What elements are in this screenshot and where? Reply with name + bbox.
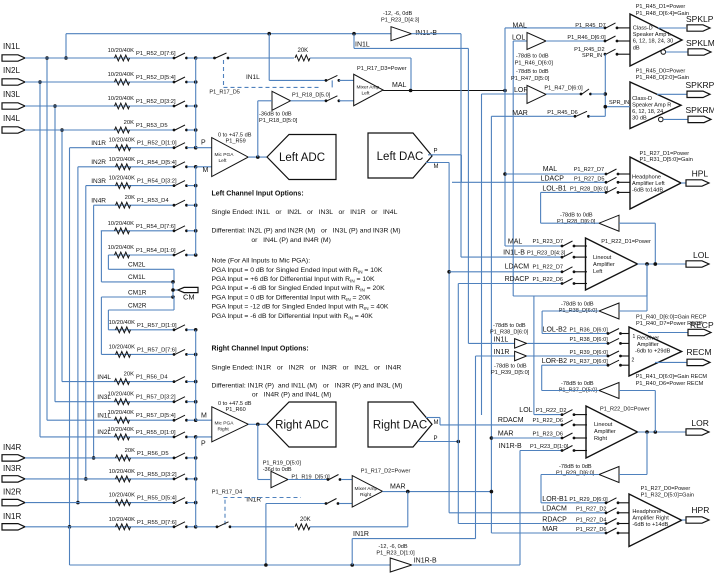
wire IN2R vertical bus [76,167,80,505]
svg-text:LOL: LOL [519,407,532,414]
svg-text:P1_R54_D[7:6]: P1_R54_D[7:6] [136,224,176,230]
svg-text:CM1L: CM1L [128,274,146,281]
svg-text:P1_R23_D6: P1_R23_D6 [533,432,563,438]
svg-text:Note (For All Inputs to Mic PG: Note (For All Inputs to Mic PGA): [212,258,311,265]
svg-text:HPL: HPL [692,169,709,179]
pin HPL [686,169,709,187]
svg-text:MAL: MAL [543,166,558,173]
wire IN1L-B net [460,34,462,257]
wire MAL to HPL [505,166,606,174]
wire CM2R [108,297,174,330]
amplifier Headphone Amp Left [630,151,693,209]
op-amp P1_R19 -36dB [263,461,330,488]
wire RECM out [655,361,687,363]
op-amp P1_R39 input buffer IN1R [491,349,530,376]
svg-text:IN3R: IN3R [91,178,106,185]
input pin IN2L [2,66,25,85]
wire R46 to switch [546,35,606,41]
svg-text:P: P [201,441,206,448]
amplifier Lineout Amp Right [586,406,650,458]
svg-text:LDACM: LDACM [542,505,567,512]
wire P1_R19 out [288,479,328,481]
svg-text:10/20/40K: 10/20/40K [108,48,135,54]
svg-text:Differential: IN1R (P) and IN: Differential: IN1R (P) and IN1L (M) or I… [212,383,403,390]
svg-text:10/20/40K: 10/20/40K [108,245,135,251]
svg-text:P1_R48_D[2:0]=Gain: P1_R48_D[2:0]=Gain [636,75,689,81]
svg-text:CM1R: CM1R [128,290,147,297]
svg-text:CM: CM [183,293,195,302]
op-amp P1_R37 -78dB feedback [559,381,619,399]
svg-text:Mixer Amp: Mixer Amp [355,486,378,492]
svg-text:10/20/40K: 10/20/40K [109,493,136,499]
svg-text:P1_R31_D[5:0]=Gain: P1_R31_D[5:0]=Gain [640,157,693,163]
svg-text:P1_R54_D[3:2]: P1_R54_D[3:2] [137,179,177,185]
svg-text:-6db to +29dB: -6db to +29dB [635,349,671,355]
text left channel options [212,191,401,244]
svg-text:1: 1 [633,334,636,340]
wire left M stub [196,167,212,174]
svg-text:P1_R17_D2=Power: P1_R17_D2=Power [361,469,411,475]
wire PGA-R out to P1_R19 [258,424,271,479]
svg-text:-78dB to 0dB: -78dB to 0dB [516,69,549,75]
wire LOR to R47 [482,87,529,94]
svg-text:CM2L: CM2L [128,262,146,269]
wire CM link [171,282,178,297]
svg-text:P1_R27_D0=Power: P1_R27_D0=Power [641,486,691,492]
amplifier Class-D Speaker Amp L [630,4,689,66]
wire HPR out [682,519,686,521]
block Left ADC [267,135,336,180]
svg-text:SPR_IN: SPR_IN [582,53,602,59]
wire LDACM net [447,163,451,513]
svg-text:IN1R-B: IN1R-B [414,558,437,565]
svg-text:P1_R22_D7: P1_R22_D7 [533,265,563,271]
wire RECP out [648,332,688,334]
svg-text:IN4R: IN4R [91,197,106,204]
svg-text:P1_R18_D[5:0]: P1_R18_D[5:0] [259,118,298,124]
wire SPKLP out [658,27,686,29]
wire IN1R-B out [412,451,520,566]
svg-text:P1_R22_D1=Power: P1_R22_D1=Power [601,239,651,245]
svg-text:MAL: MAL [392,82,407,89]
svg-text:Right: Right [360,492,372,498]
wire RDACP to HPR [458,517,606,524]
svg-text:P1_R22_D6: P1_R22_D6 [533,277,563,283]
resistor P1_R55_D[7:6] 10/20/40K row [25,517,198,530]
svg-text:-78dB to 0dB: -78dB to 0dB [559,464,592,470]
svg-text:IN1L: IN1L [355,42,370,49]
resistor P1_R52_D[3:2] 10/20/40K row [25,96,198,109]
wire SPR_IN stub [604,100,631,109]
svg-text:IN1R: IN1R [3,512,21,521]
svg-text:IN1R-B: IN1R-B [499,443,522,450]
wire IN1R up branch [352,531,475,565]
wire IN1L buffered row [528,337,609,343]
wire CM2L [108,255,174,282]
wire R29 out [541,475,599,503]
svg-text:-78dB to 0dB: -78dB to 0dB [494,364,527,370]
wire LDACP to HPL [452,176,606,183]
svg-text:P1_R17_D4: P1_R17_D4 [212,490,242,496]
switch mixer-R input 2 [325,499,353,505]
svg-text:P1_R47_D[5:0]: P1_R47_D[5:0] [511,76,550,82]
svg-text:P1_R57_D[5:4]: P1_R57_D[5:4] [136,413,176,419]
svg-text:IN1L-B: IN1L-B [503,249,525,256]
wire left P stub [196,140,212,148]
svg-text:RDACM: RDACM [498,417,524,424]
pin RECP [688,320,714,336]
svg-text:P1_R23_D7: P1_R23_D7 [533,239,563,245]
svg-text:P1_R27_D7: P1_R27_D7 [574,167,604,173]
op-amp P1_R38 -78dB feedback [559,302,619,320]
input pin IN3R [2,464,25,482]
wire top rail IN1L [66,32,391,36]
wire R47 to switch [544,85,583,94]
wire Right DAC M out [426,418,440,427]
resistor P1_R55_D[1:0] 10/20/40K row [40,427,198,440]
block Right DAC [368,402,432,447]
svg-text:-12, -6, 0dB: -12, -6, 0dB [378,544,407,550]
svg-text:LOL: LOL [512,34,525,41]
svg-text:RECM: RECM [687,347,712,357]
pin RECM [687,347,712,366]
svg-text:P1_R40_D6=Power RECM: P1_R40_D6=Power RECM [636,381,704,387]
wire LOR-B2 row [542,358,608,365]
resistor P1_R55_D[3:2] 10/20/40K row [25,469,198,482]
svg-text:MAL: MAL [508,239,523,246]
switch P1_R45_D2 [574,47,630,59]
switch P1_R23_D7 [561,241,587,247]
svg-text:Class-D: Class-D [632,96,652,102]
pin SPKRM [686,105,714,123]
wire MAL output [383,89,507,93]
wire LOL to R38 [619,264,647,311]
svg-text:10/20/40K: 10/20/40K [109,176,136,182]
op-amp P1_R29 -78dB feedback [556,464,619,483]
svg-text:MAR: MAR [390,484,406,491]
op-amp Mixer Amp Right [352,469,410,508]
op-amp Mixer Amp Left [354,66,407,106]
resistor P1_R52_D[1:0] 10/20/40K row [70,138,198,151]
switch mixer-R input 1 [327,475,353,481]
wire SPKLM out [661,50,688,55]
svg-text:P1_R39_D[6:0]: P1_R39_D[6:0] [570,350,609,356]
wire LOR to R37 [619,391,655,433]
svg-text:10/20/40K: 10/20/40K [108,221,135,227]
wire MAR net [490,116,494,533]
svg-text:LOR: LOR [514,87,528,94]
wire HPL feedback in [619,222,655,224]
svg-text:Left ADC: Left ADC [279,152,325,164]
text PGA note [212,258,389,321]
svg-text:P1_R45_D1=Power: P1_R45_D1=Power [636,4,686,10]
svg-text:LOL-B1: LOL-B1 [542,185,566,192]
svg-text:10/20/40K: 10/20/40K [109,138,136,144]
input pin IN3L [2,90,25,109]
input pin IN1R [2,512,25,530]
svg-text:IN3L: IN3L [3,90,20,99]
switch P1_R47 [580,89,606,95]
svg-text:LOL-B2: LOL-B2 [543,326,567,333]
svg-text:P1_R38_D[6:0]: P1_R38_D[6:0] [570,337,609,343]
svg-text:P1_R46_D[6:0]: P1_R46_D[6:0] [515,61,554,67]
svg-text:Lineout: Lineout [593,255,612,261]
switch P1_R27_D4 [605,519,629,525]
wire IN1R net [476,356,515,539]
op-amp Mic PGA Right [212,401,252,442]
svg-text:CM2R: CM2R [128,303,147,310]
wire RDACM to LineR [440,417,563,425]
svg-text:P1_R45_D0=Power: P1_R45_D0=Power [636,68,686,74]
wire MAR to LineR [491,431,563,438]
svg-text:10/20/40K: 10/20/40K [109,320,136,326]
svg-text:LDACM: LDACM [505,264,530,271]
svg-text:-36dB to 0dB: -36dB to 0dB [259,112,292,118]
svg-text:P1_R54_D[5:4]: P1_R54_D[5:4] [137,160,177,166]
svg-text:M: M [201,412,207,419]
svg-text:20K: 20K [124,372,134,378]
switch P1_R22_D7 [561,267,587,273]
resistor P1_R57_D[7:6] 10/20/40K row [101,344,197,357]
svg-text:10/20/40K: 10/20/40K [109,469,136,475]
svg-text:P1_R22_D0=Power: P1_R22_D0=Power [600,407,650,413]
svg-text:Speaker Amp R: Speaker Amp R [632,102,671,108]
svg-text:or IN4R (P) and IN4L (M): or IN4R (P) and IN4L (M) [252,392,331,399]
pin SPKRP [686,80,714,97]
amplifier Receiver Amp [629,314,707,387]
svg-text:P1_R38_D[6:0]: P1_R38_D[6:0] [490,330,529,336]
wire P1_R17_D5 dashed [209,60,332,96]
wire SPR_IN vertical [604,54,608,116]
wire IN3L vertical bus [53,104,57,402]
svg-text:10/20/40K: 10/20/40K [108,96,135,102]
svg-text:P1_R27_D1=Power: P1_R27_D1=Power [640,151,690,157]
switch P1_R37 in [607,360,629,366]
svg-text:-78dB to 0dB: -78dB to 0dB [516,54,549,60]
svg-text:10/20/40K: 10/20/40K [109,344,136,350]
wire IN1L-B to LineL [461,249,566,257]
op-amp P1_R28 -78dB feedback [557,213,619,232]
svg-text:10/20/40K: 10/20/40K [108,72,135,78]
svg-text:10/20/40K: 10/20/40K [109,157,136,163]
wire MAL to ClassD-L [505,22,606,29]
text right channel options [212,346,403,399]
wire SPKRM out [659,117,689,122]
svg-text:Differential: IN2L (P) and IN2: Differential: IN2L (P) and IN2R (M) or I… [212,228,401,235]
svg-text:2: 2 [632,358,635,364]
svg-text:PGA Input = 0 dB for Singled E: PGA Input = 0 dB for Singled Ended Input… [212,267,383,275]
svg-text:6, 12, 18, 24,: 6, 12, 18, 24, [632,109,665,115]
svg-text:30 dB: 30 dB [632,115,647,121]
svg-text:MAR: MAR [512,110,528,117]
svg-text:P: P [434,436,438,442]
svg-text:Mixer Amp: Mixer Amp [357,85,380,91]
svg-text:MAR: MAR [498,431,514,438]
svg-text:P1_R22_D2: P1_R22_D2 [536,408,566,414]
svg-text:PGA Input = -6 dB for Singled: PGA Input = -6 dB for Singled Ended Inpu… [212,285,386,293]
resistor P1_R57_D[5:4] 10/20/40K row [47,410,198,423]
svg-text:P1_R57_D[3:2]: P1_R57_D[3:2] [136,395,176,401]
switch mixer-L input 1 [325,75,354,81]
svg-text:Right ADC: Right ADC [275,419,329,431]
svg-text:P1_R32_D[5:0]=Gain: P1_R32_D[5:0]=Gain [641,492,694,498]
input pin IN4R [2,443,25,461]
svg-text:P1_R27_D5: P1_R27_D5 [574,177,604,183]
svg-text:IN1R: IN1R [353,531,369,538]
switch P1_R46 [604,36,630,42]
wire right M bus [195,330,197,420]
wire SPKRP out [657,93,687,95]
svg-text:P1_R27_D2: P1_R27_D2 [576,506,606,512]
wire RDACP to LineL [458,276,563,284]
wire 20K feedback row [196,48,411,91]
svg-text:Amplifier: Amplifier [637,342,659,348]
svg-text:M: M [434,164,439,170]
svg-text:P1_R60: P1_R60 [226,407,246,413]
svg-text:Right: Right [218,427,230,433]
wire HPL feedback out [541,192,599,223]
switch P1_R27_D5 [605,177,630,183]
pin LOL [686,250,709,267]
svg-text:20K: 20K [298,48,309,54]
wire IN1R-B to LineR [499,443,569,451]
wire IN1L net [468,48,514,343]
wire LOL to LineR [519,407,566,415]
svg-text:20K: 20K [125,195,135,201]
block Right ADC [267,402,336,447]
resistor P1_R54_D[1:0] 10/20/40K row [108,245,198,258]
resistor P1_R54_D[5:4] 10/20/40K row [78,157,198,170]
svg-text:-36d to 0dB: -36d to 0dB [263,467,292,473]
svg-text:P1_R56_D5: P1_R56_D5 [137,451,169,457]
wire right P stub [196,437,212,448]
wire IN1R vertical bus [68,148,72,529]
svg-text:P1_R55_D[5:4]: P1_R55_D[5:4] [137,496,177,502]
svg-text:-78dB to 0dB: -78dB to 0dB [561,381,594,387]
svg-text:-12, -6, 0dB: -12, -6, 0dB [383,11,412,17]
svg-text:Left: Left [593,269,603,275]
svg-text:P1_R19_D[5:0]: P1_R19_D[5:0] [263,461,302,467]
switch mixer-L input 2 [325,96,354,102]
resistor P1_R57_D[1:0] 10/20/40K row [108,320,197,333]
svg-text:IN2L: IN2L [97,429,111,436]
input pin IN2R [2,488,25,506]
svg-text:P1_R52_D[1:0]: P1_R52_D[1:0] [137,141,177,147]
switch P1_R27_D6 [605,528,629,534]
svg-text:P1_R23_D[1:0]: P1_R23_D[1:0] [530,444,569,450]
switch P1_R23_D10 [561,446,587,452]
svg-text:P1_R46_D[6:0]: P1_R46_D[6:0] [567,35,606,41]
svg-text:P1_R48_D[6:4]=Gain: P1_R48_D[6:4]=Gain [636,11,689,17]
svg-text:P1_R54_D[1:0]: P1_R54_D[1:0] [136,248,176,254]
svg-text:IN3L: IN3L [97,394,111,401]
wire IN1R bottom rail [70,527,391,567]
wire right M stub [196,412,212,420]
wire MAR output [382,490,491,494]
resistor P1_R54_D[7:6] 10/20/40K row [101,221,198,234]
svg-text:Left: Left [362,91,371,97]
svg-text:P1_R57_D[7:6]: P1_R57_D[7:6] [137,347,177,353]
svg-text:Mic PGA: Mic PGA [215,421,235,427]
wire Right DAC P out [418,436,460,443]
wire right P bus [195,437,197,527]
svg-text:LOR-B2: LOR-B2 [542,358,567,365]
resistor P1_R57_D[3:2] 10/20/40K row [55,392,198,405]
svg-text:P1_R29_D[6:0]: P1_R29_D[6:0] [569,497,608,503]
svg-text:IN1L: IN1L [3,42,20,51]
svg-text:IN2L: IN2L [3,66,20,75]
wire LOL out [638,262,687,266]
svg-text:IN1L: IN1L [494,337,509,344]
svg-text:SPKRM: SPKRM [686,105,714,115]
svg-text:P1_R41_D[6:0]=Gain RECM: P1_R41_D[6:0]=Gain RECM [636,374,708,380]
svg-text:P1_R56_D4: P1_R56_D4 [136,375,168,381]
wire MAL to LineL [505,239,563,247]
svg-text:6, 12, 18, 24, 30: 6, 12, 18, 24, 30 [633,39,673,45]
svg-text:SPKLP: SPKLP [686,14,714,24]
switch P1_R38 in [607,338,629,344]
pin SPKLP [686,14,714,31]
svg-text:Amplifier: Amplifier [594,429,616,435]
switch P1_R45_D6 [574,111,606,117]
svg-text:Right: Right [594,436,608,442]
resistor P1_R53_D5 20K row [25,120,198,133]
wire CM1L [101,231,174,284]
wire Left DAC M out [426,163,449,170]
svg-text:IN2R: IN2R [91,159,106,166]
svg-text:P1_R37_D[6:0]: P1_R37_D[6:0] [570,359,609,365]
wire PGA out to P1_R18 [258,101,272,157]
svg-text:10/20/40K: 10/20/40K [108,392,135,398]
svg-text:IN3R: IN3R [3,464,21,473]
wire IN1R to mixer [246,497,326,566]
wire IN1L tap to top rail [64,34,68,60]
svg-text:dB: dB [633,45,640,51]
resistor P1_R52_D[7:6] 10/20/40K row [25,48,198,61]
svg-text:IN1L: IN1L [246,74,260,81]
svg-text:P1_R23_D[1:0]: P1_R23_D[1:0] [376,551,415,557]
svg-text:or IN4L (P) and IN4R (M): or IN4L (P) and IN4R (M) [251,237,330,244]
switch P1_R45_D7 [604,23,630,29]
svg-text:MAR: MAR [542,526,558,533]
wire PGA-R output [248,423,267,427]
svg-text:Amplifier Right: Amplifier Right [632,516,669,522]
svg-text:Left Channel Input Options:: Left Channel Input Options: [212,191,304,198]
wire IN1L vertical bus [45,56,49,420]
svg-text:Amplifier: Amplifier [593,262,615,268]
svg-text:P1_R23_D[4:3]: P1_R23_D[4:3] [527,250,566,256]
svg-text:P: P [434,148,438,154]
svg-text:P1_R55_D[7:6]: P1_R55_D[7:6] [137,520,177,526]
wire IN1R buffered row [527,350,609,356]
resistor P1_R52_D[5:4] 10/20/40K row [25,72,198,85]
wire IN1L branch mixer [246,34,326,81]
svg-text:P1_R52_D[5:4]: P1_R52_D[5:4] [136,75,176,81]
svg-text:P1_R55_D[3:2]: P1_R55_D[3:2] [137,472,177,478]
wire LOL-B2 row [542,326,608,333]
op-amp Mic PGA Left [212,133,252,177]
switch P1_R22_D6 [561,279,587,285]
pin HPR [686,505,709,523]
svg-text:P1_R22_D6: P1_R22_D6 [533,418,563,424]
pin LOR [686,418,709,435]
wire MAR to ClassD-R [491,110,577,117]
svg-text:PGA Input = -12 dB for Singled: PGA Input = -12 dB for Singled Ended Inp… [212,304,389,312]
svg-text:Amplifier Left: Amplifier Left [632,181,665,187]
svg-text:RDACP: RDACP [505,276,530,283]
resistor P1_R56_D4 20K row [62,372,198,385]
wire PGA-L output [248,155,267,159]
